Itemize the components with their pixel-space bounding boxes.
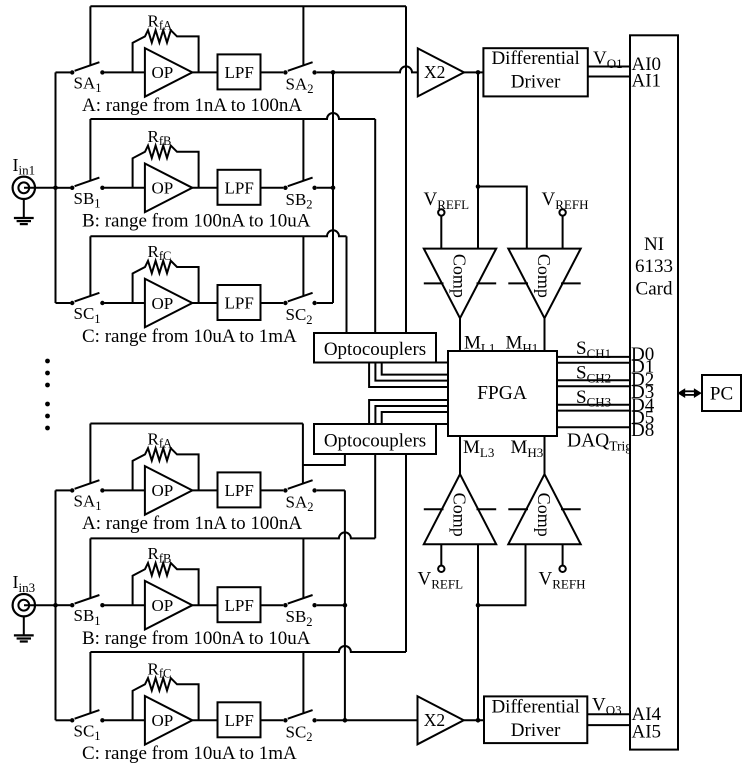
wire comp L1 output to FPGA xyxy=(459,318,461,351)
svg-text:Driver: Driver xyxy=(511,72,561,93)
svg-text:Comp: Comp xyxy=(534,254,554,298)
wire op-amp to LPF xyxy=(192,719,217,721)
wire LPF to switch SC2 xyxy=(261,719,284,721)
low-pass filter LPF (B1) xyxy=(218,170,261,205)
wire LPF to switch SA2 xyxy=(261,71,284,73)
switch SA2 contacts xyxy=(283,488,287,492)
switch SC1 control stem xyxy=(89,652,91,714)
switch SC2 contacts xyxy=(283,301,287,305)
switch SC1 (u bank) left contact xyxy=(70,301,74,305)
svg-text:OP: OP xyxy=(152,294,174,313)
wire optocoupler2 link to FPGA xyxy=(436,423,448,425)
control drop channel B upper to optocoupler xyxy=(374,119,376,333)
low-pass filter LPF (C1) xyxy=(218,285,261,320)
wire optocoupler1 link to FPGA xyxy=(436,362,448,364)
wire switch SA1 to op-amp xyxy=(105,71,146,73)
control stem SB2 lower xyxy=(302,538,304,598)
switch SA1 control stem xyxy=(89,6,91,66)
wire SB2 to bus node lower xyxy=(317,604,345,606)
svg-text:A: range from 1nA to 100nA: A: range from 1nA to 100nA xyxy=(82,95,302,116)
wire comp H1 output to FPGA xyxy=(544,318,546,351)
amplifier X2 lower xyxy=(418,696,464,744)
ground for Iin3 xyxy=(23,616,25,634)
node rail-Iin3 junction xyxy=(53,603,58,608)
svg-text:AI1: AI1 xyxy=(632,70,662,91)
wire branch to high comparator lower xyxy=(478,544,526,605)
switch SB1 control stem xyxy=(89,538,91,598)
switch SB2 contacts xyxy=(283,603,287,607)
feedback resistor R_fA network xyxy=(133,448,199,490)
svg-text:OP: OP xyxy=(152,63,174,82)
control drop SA2 lower xyxy=(302,424,304,484)
wire row A1 left stub from rail xyxy=(56,71,71,73)
svg-text:Differential: Differential xyxy=(491,48,579,69)
control wire channel B lower (hops signal bus) xyxy=(90,532,375,538)
control rise channel B lower to optocoupler xyxy=(374,454,376,538)
wire op-amp to LPF xyxy=(192,302,217,304)
switch SA2 lever xyxy=(288,62,313,71)
terminal VREFH upper xyxy=(562,216,564,249)
feedback resistor R_fB network xyxy=(133,146,199,188)
svg-text:LPF: LPF xyxy=(225,481,254,500)
wire bus to X2 amplifier lower xyxy=(345,719,418,721)
node bus-B upper xyxy=(331,186,336,191)
control stem SC2 upper xyxy=(302,236,304,296)
wire comp L3 output to FPGA xyxy=(459,436,461,474)
comparator Comp H1 (high, upper) xyxy=(508,249,580,319)
control drop channel A upper to optocoupler xyxy=(405,6,407,333)
svg-text:Differential: Differential xyxy=(491,696,579,717)
differential driver lower xyxy=(484,696,587,743)
wire comp H3 output to FPGA xyxy=(544,436,546,474)
double arrow NI card to PC xyxy=(682,390,698,392)
switch SB2 lever xyxy=(288,595,313,604)
control wire channel C upper (hops signal bus) xyxy=(90,230,346,236)
switch SB1 (u bank) left contact xyxy=(70,186,74,190)
switch SB1 control stem xyxy=(89,119,91,181)
svg-text:LPF: LPF xyxy=(225,596,254,615)
input source Iin3 connector xyxy=(24,604,56,606)
svg-text:Card: Card xyxy=(636,279,673,300)
signal bus upper bank xyxy=(332,72,334,303)
feedback resistor R_fA network xyxy=(133,30,199,72)
wire LPF to switch SC2 xyxy=(261,302,284,304)
comparator Comp L3 (low, lower) xyxy=(424,474,496,544)
signal bus lower bank xyxy=(344,490,346,720)
svg-text:B: range from 100nA to 10uA: B: range from 100nA to 10uA xyxy=(82,628,311,649)
terminal VREFL upper xyxy=(440,216,442,249)
wire branch to high comparator upper xyxy=(478,187,527,249)
op-amp OP (A1) xyxy=(145,48,192,97)
switch SC1 lever xyxy=(75,293,100,302)
switch SC1 lever xyxy=(75,710,100,719)
svg-text:B: range from 100nA to 10uA: B: range from 100nA to 10uA xyxy=(82,211,311,232)
wire SA2 to bus corner lower xyxy=(317,489,345,491)
wire LPF to switch SA2 xyxy=(261,489,284,491)
node bus-A upper xyxy=(331,70,336,75)
svg-text:X2: X2 xyxy=(424,710,445,730)
svg-text:FPGA: FPGA xyxy=(477,383,527,404)
control wire channel C lower (hops signal bus) xyxy=(90,646,406,652)
wire FPGA to NI pin D2 xyxy=(557,379,630,381)
svg-text:Comp: Comp xyxy=(450,254,470,298)
switch SB2 lever xyxy=(288,178,313,187)
wire FPGA to NI pin D4 xyxy=(557,404,630,406)
wire op-amp to LPF xyxy=(192,604,217,606)
wire X2 output up to comparators lower xyxy=(477,544,479,720)
wire LPF to switch SB2 xyxy=(261,604,284,606)
wire LPF to switch SB2 xyxy=(261,187,284,189)
svg-text:X2: X2 xyxy=(424,62,445,82)
wire FPGA to NI pin D0 xyxy=(557,356,630,358)
op-amp OP (C3) xyxy=(145,696,192,745)
svg-text:Optocouplers: Optocouplers xyxy=(324,431,426,452)
input source Iin1 connector xyxy=(24,187,56,189)
node comparator feed upper xyxy=(476,184,481,189)
PC box xyxy=(702,375,741,411)
svg-text:LPF: LPF xyxy=(225,178,254,197)
switch SC1 (l bank) left contact xyxy=(70,718,74,722)
wire row A3 left stub from rail xyxy=(56,489,71,491)
node bus-C lower xyxy=(343,718,348,723)
op-amp OP (A3) xyxy=(145,466,192,515)
low-pass filter LPF (A1) xyxy=(218,54,261,89)
switch SC2 contacts xyxy=(283,718,287,722)
node bus-B lower xyxy=(343,603,348,608)
wire switch SC1 to op-amp xyxy=(105,302,146,304)
svg-text:OP: OP xyxy=(152,596,174,615)
switch SB1 (l bank) left contact xyxy=(70,603,74,607)
svg-text:AI5: AI5 xyxy=(632,722,662,743)
switch SC2 lever xyxy=(288,710,313,719)
wire optocoupler1 to FPGA line 2 xyxy=(375,363,448,381)
svg-text:D8: D8 xyxy=(631,420,654,441)
switch SA1 control stem xyxy=(89,424,91,484)
control stem SA2 upper xyxy=(302,6,304,66)
svg-text:PC: PC xyxy=(710,384,733,405)
control stem SC2 lower xyxy=(302,652,304,714)
control stem SB2 upper xyxy=(302,119,304,181)
svg-text:OP: OP xyxy=(152,179,174,198)
terminal VREFH lower xyxy=(562,544,564,565)
svg-text:6133: 6133 xyxy=(635,256,673,277)
left input rail lower bank xyxy=(55,490,57,720)
wire optocoupler1 to FPGA line 3 xyxy=(369,363,448,388)
wire FPGA to NI pin D1 xyxy=(557,362,630,364)
wire switch SC1 to op-amp xyxy=(105,719,146,721)
wire SB2 to bus node upper xyxy=(317,187,333,189)
node X2 output upper xyxy=(476,70,481,75)
svg-text:Optocouplers: Optocouplers xyxy=(324,339,426,360)
terminal VREFL lower xyxy=(440,544,442,565)
svg-text:OP: OP xyxy=(152,711,174,730)
wire switch SB1 to op-amp xyxy=(105,187,146,189)
switch SA1 lever xyxy=(75,480,100,489)
wire VO3+ to AI4 xyxy=(587,713,630,715)
comparator Comp H3 (high, lower) xyxy=(508,474,580,544)
wire FPGA to NI pin D5 xyxy=(557,410,630,412)
wire op-amp to LPF xyxy=(192,489,217,491)
switch SA1 (u bank) left contact xyxy=(70,70,74,74)
wire VO1+ to AI0 xyxy=(588,66,630,68)
svg-text:NI: NI xyxy=(644,234,664,255)
wire FPGA to NI pin D8 xyxy=(557,426,630,428)
amplifier X2 upper xyxy=(418,48,464,96)
wire optocoupler2 to FPGA line 2 xyxy=(375,406,448,424)
wire row C3 left stub from rail xyxy=(56,719,71,721)
wire op-amp to LPF xyxy=(192,71,217,73)
wire op-amp to LPF xyxy=(192,187,217,189)
wire X2 to differential driver xyxy=(464,71,483,73)
node X2 output lower xyxy=(476,718,481,723)
svg-text:Comp: Comp xyxy=(534,493,554,537)
switch SC1 control stem xyxy=(89,236,91,296)
wire row B3 left stub from rail xyxy=(56,604,71,606)
wire optocoupler2 to FPGA line 3 xyxy=(382,412,448,424)
op-amp OP (B1) xyxy=(145,164,192,213)
low-pass filter LPF (C3) xyxy=(218,702,261,737)
wire VO1- to AI1 xyxy=(588,76,630,78)
svg-text:Driver: Driver xyxy=(511,720,561,741)
wire switch SA1 to op-amp xyxy=(105,489,146,491)
optocouplers box lower xyxy=(314,424,436,454)
switch SB2 contacts xyxy=(283,186,287,190)
node comparator feed lower xyxy=(476,603,481,608)
wire X2 output down to comparators upper xyxy=(477,72,479,248)
node rail-Iin1 junction xyxy=(53,186,58,191)
switch SB1 lever xyxy=(75,178,100,187)
switch SA2 lever xyxy=(288,480,313,489)
feedback resistor R_fB network xyxy=(133,563,199,605)
control wire channel B upper (hops signal bus) xyxy=(90,113,375,119)
svg-text:A: range from 1nA to 100nA: A: range from 1nA to 100nA xyxy=(82,513,302,534)
wire VO3- to AI5 xyxy=(587,724,630,726)
control wire channel A lower xyxy=(90,423,303,425)
optocouplers box upper xyxy=(314,333,436,363)
switch SA1 (l bank) left contact xyxy=(70,488,74,492)
wire row B1 left stub from rail xyxy=(56,187,71,189)
wire optocoupler1 to FPGA line 1 xyxy=(382,363,448,375)
wire X2 to differential driver lower xyxy=(464,719,484,721)
FPGA xyxy=(448,351,557,436)
feedback resistor R_fC network xyxy=(133,261,199,303)
wire SC2 to bus corner upper xyxy=(317,302,333,304)
op-amp OP (B3) xyxy=(145,581,192,630)
control wire channel A upper xyxy=(90,5,406,7)
switch SB1 lever xyxy=(75,595,100,604)
svg-text:C: range from 10uA to 1mA: C: range from 10uA to 1mA xyxy=(82,743,297,764)
control rise channel C lower to optocoupler xyxy=(405,454,407,652)
op-amp OP (C1) xyxy=(145,279,192,328)
control drop channel C upper to optocoupler xyxy=(346,236,348,333)
switch SA2 contacts xyxy=(283,70,287,74)
left input rail upper bank xyxy=(55,72,57,303)
wire SA2 to bus node upper xyxy=(317,71,333,73)
feedback resistor R_fC network xyxy=(133,678,199,720)
wire bus to X2 amplifier (hops control drop) xyxy=(333,66,418,72)
NI 6133 card xyxy=(630,35,678,749)
svg-text:LPF: LPF xyxy=(225,294,254,313)
wire switch SB1 to op-amp xyxy=(105,604,146,606)
svg-text:Comp: Comp xyxy=(450,493,470,537)
svg-text:OP: OP xyxy=(152,481,174,500)
wire FPGA to NI pin D3 xyxy=(557,385,630,387)
low-pass filter LPF (B3) xyxy=(218,587,261,622)
comparator Comp L1 (low, upper) xyxy=(424,249,496,319)
switch SC2 lever xyxy=(288,293,313,302)
ground for Iin1 xyxy=(23,199,25,217)
ellipsis dots between banks xyxy=(45,359,50,364)
switch SA1 lever xyxy=(75,62,100,71)
svg-text:LPF: LPF xyxy=(225,63,254,82)
differential driver upper xyxy=(483,48,587,96)
low-pass filter LPF (A3) xyxy=(218,472,261,507)
wire optocoupler2 to FPGA line 1 xyxy=(369,400,448,424)
wire SC2 to bus node lower xyxy=(317,719,345,721)
wire row C1 left stub from rail xyxy=(56,302,71,304)
control jog channel A lower to optocoupler xyxy=(303,454,345,465)
svg-text:LPF: LPF xyxy=(225,711,254,730)
svg-text:C: range from 10uA to 1mA: C: range from 10uA to 1mA xyxy=(82,326,297,347)
